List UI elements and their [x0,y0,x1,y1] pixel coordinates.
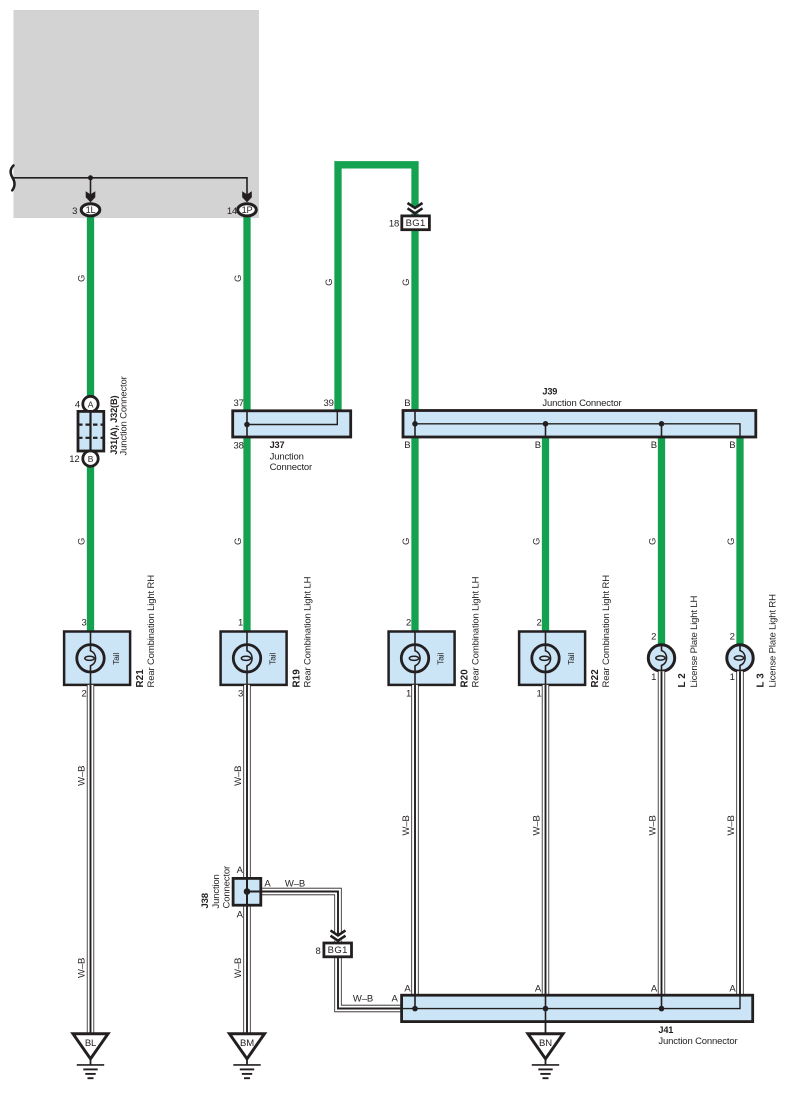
svg-text:A: A [651,984,658,995]
svg-text:B: B [535,440,541,451]
svg-text:Rear Combination Light RH: Rear Combination Light RH [601,575,612,688]
svg-text:BL: BL [85,1038,96,1049]
svg-text:Tail: Tail [111,653,121,665]
svg-text:2: 2 [730,632,735,643]
svg-text:W–B: W–B [531,815,542,835]
svg-text:3: 3 [238,688,243,699]
svg-text:W–B: W–B [726,815,737,835]
svg-text:18: 18 [389,219,399,230]
svg-text:Rear Combination Light LH: Rear Combination Light LH [471,576,482,687]
svg-text:J37: J37 [270,440,285,450]
svg-text:L 3: L 3 [756,673,767,688]
svg-text:39: 39 [324,398,334,409]
svg-text:J38: J38 [200,893,211,908]
svg-text:Junction Connector: Junction Connector [118,376,129,455]
svg-text:1: 1 [238,618,243,629]
svg-text:G: G [76,275,87,282]
svg-text:W–B: W–B [233,958,244,978]
svg-text:B: B [88,454,94,464]
svg-text:4: 4 [75,400,80,411]
svg-text:1P: 1P [242,205,253,215]
svg-text:A: A [404,984,411,995]
svg-text:B: B [404,440,410,451]
svg-text:W–B: W–B [76,958,87,978]
svg-text:A: A [392,993,399,1004]
svg-text:A: A [88,399,94,409]
svg-text:12: 12 [69,454,79,465]
svg-text:Junction: Junction [270,452,304,463]
svg-text:Junction Connector: Junction Connector [658,1036,737,1047]
svg-text:1: 1 [537,688,542,699]
svg-text:J39: J39 [542,386,557,396]
svg-text:G: G [401,279,412,286]
svg-text:2: 2 [651,632,656,643]
svg-text:G: G [726,538,737,545]
svg-text:A: A [729,984,736,995]
svg-text:14: 14 [227,206,237,217]
svg-text:G: G [531,538,542,545]
svg-text:3: 3 [72,206,77,217]
svg-text:R22: R22 [590,669,601,688]
svg-text:G: G [233,275,244,282]
svg-text:A: A [264,878,271,889]
svg-text:W–B: W–B [647,815,658,835]
svg-text:Connector: Connector [221,866,232,908]
svg-text:W–B: W–B [233,766,244,786]
svg-text:Rear Combination Light LH: Rear Combination Light LH [303,576,314,687]
svg-text:Connector: Connector [270,462,312,473]
svg-text:A: A [237,910,244,921]
svg-text:1: 1 [406,688,411,699]
svg-text:R20: R20 [459,669,470,688]
svg-text:Tail: Tail [566,653,576,665]
svg-text:A: A [237,865,244,876]
svg-text:BM: BM [240,1038,254,1049]
svg-text:2: 2 [82,688,87,699]
svg-text:3: 3 [82,618,87,629]
svg-text:J41: J41 [658,1025,673,1035]
svg-text:G: G [233,538,244,545]
svg-text:38: 38 [234,441,244,452]
svg-text:G: G [324,279,335,286]
svg-text:G: G [401,538,412,545]
svg-text:8: 8 [316,946,321,957]
svg-text:W–B: W–B [285,879,305,890]
svg-text:A: A [535,984,542,995]
svg-text:1L: 1L [86,205,96,215]
svg-text:BN: BN [539,1038,552,1049]
svg-text:W–B: W–B [401,815,412,835]
svg-text:R19: R19 [291,669,302,688]
svg-text:B: B [651,440,657,451]
svg-text:B: B [404,398,410,409]
svg-text:2: 2 [537,618,542,629]
svg-text:BG1: BG1 [406,218,426,229]
svg-text:B: B [729,440,735,451]
svg-text:License Plate Light LH: License Plate Light LH [689,595,700,687]
svg-text:37: 37 [234,398,244,409]
svg-text:Tail: Tail [436,653,446,665]
svg-text:Tail: Tail [268,653,278,665]
svg-text:G: G [76,538,87,545]
svg-text:1: 1 [730,672,735,683]
svg-text:License Plate Light RH: License Plate Light RH [768,594,779,688]
svg-text:W–B: W–B [353,993,373,1004]
svg-text:2: 2 [406,618,411,629]
svg-text:Junction: Junction [211,874,222,908]
svg-text:R21: R21 [135,669,146,688]
svg-text:W–B: W–B [76,766,87,786]
svg-text:L 2: L 2 [677,673,688,688]
svg-text:Junction Connector: Junction Connector [542,398,621,409]
svg-text:1: 1 [651,672,656,683]
svg-text:Rear Combination Light RH: Rear Combination Light RH [146,575,157,688]
svg-text:BG1: BG1 [328,945,348,956]
svg-text:G: G [647,538,658,545]
